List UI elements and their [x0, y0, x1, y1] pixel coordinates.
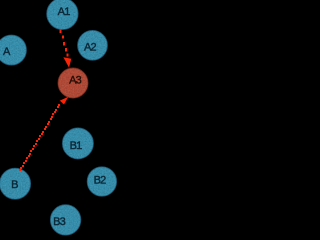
arrowhead A1 -> A3 [63, 57, 71, 67]
svg-text:B3: B3 [53, 216, 66, 228]
svg-text:A2: A2 [84, 42, 97, 54]
node A3 [58, 68, 88, 98]
node B3 [50, 205, 80, 235]
svg-text:A3: A3 [69, 75, 82, 87]
arrowhead B -> A3 [60, 97, 69, 105]
node B [0, 168, 31, 199]
svg-text:B: B [11, 179, 18, 191]
svg-text:A1: A1 [58, 6, 71, 18]
svg-text:B1: B1 [70, 140, 83, 152]
edge A1 -> A3 (dashed) [60, 30, 69, 57]
node A2 [78, 30, 108, 60]
node A1 [47, 0, 78, 30]
node B1 [62, 128, 93, 159]
node A [0, 35, 26, 65]
edge B -> A3 (dotted) [19, 104, 60, 171]
node B2 [87, 167, 116, 196]
noise texture over nodes [0, 0, 122, 240]
svg-text:B2: B2 [94, 174, 107, 186]
